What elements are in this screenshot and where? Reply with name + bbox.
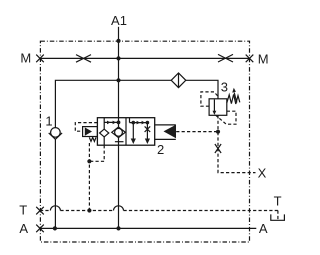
wire: main poppet to A line: [118, 138, 120, 229]
T line (dashed) with crossover hops: [40, 210, 278, 212]
junction node drain to T: [87, 208, 91, 212]
junction node check valve to A: [53, 226, 57, 230]
svg-text:A1: A1: [111, 13, 127, 28]
relief valve adjustable spring: [227, 94, 240, 104]
junction node relief drain: [216, 130, 220, 134]
line (dashed) to X port: [218, 132, 256, 173]
pilot poppet small diamond: [100, 129, 109, 137]
check valve 1 seat: [49, 133, 62, 139]
junction node pilot piston: [117, 121, 121, 125]
pilot line (dashed) to relief drain junction: [176, 131, 218, 133]
subplate boundary frame (dash-dot): [40, 41, 249, 242]
pilot piston chevron 2: [113, 121, 117, 125]
junction node on frame: [116, 39, 120, 43]
pilot operator box (left): [83, 127, 98, 137]
plugged throttle X mark: [215, 144, 221, 153]
metering chevron: [137, 121, 141, 125]
junction node metering right: [146, 121, 150, 125]
pilot line loop (dashed) to pilot box: [75, 123, 97, 132]
A line (solid): [40, 227, 256, 229]
plugged port X mark M right: [246, 55, 254, 63]
junction node metering left: [132, 121, 136, 125]
junction node on branch line: [116, 78, 120, 82]
right pilot stub lines: [155, 125, 176, 139]
wire: A1 vertical line: [118, 27, 120, 127]
svg-text:T: T: [274, 194, 282, 209]
metering section top link: [130, 118, 148, 123]
closed measuring connection (bowtie) right: [218, 54, 233, 62]
crossover hop over check valve line: [50, 206, 60, 211]
crossover hop over main line: [114, 206, 124, 211]
spring under pilot box: [89, 137, 96, 141]
svg-text:X: X: [258, 165, 267, 180]
relief spring chamber drain loop (dashed): [215, 111, 236, 124]
closed measuring connection (bowtie) left: [76, 55, 91, 63]
wire: check valve 1 down to A line: [54, 139, 56, 228]
branch (dashed) from pilot poppet to drain: [89, 145, 104, 161]
junction node drain branch: [87, 159, 91, 163]
relief valve 3 body: [209, 99, 227, 116]
pilot poppet lower stem: [103, 137, 105, 145]
wire: branch from check valve to relief valve inlet: [55, 80, 218, 127]
main poppet ball: [115, 128, 123, 136]
pilot piston chevron 1: [107, 121, 111, 125]
metering path right with arrow: [146, 123, 148, 139]
right pilot filled triangle: [164, 125, 177, 139]
wire: M gauge line: [40, 57, 250, 59]
svg-text:T: T: [19, 202, 27, 217]
svg-text:M: M: [258, 51, 269, 66]
svg-text:3: 3: [221, 79, 228, 94]
orifice diamond: [171, 73, 186, 88]
plugged port X mark A left: [36, 225, 44, 233]
svg-text:A: A: [259, 221, 268, 236]
svg-text:A: A: [19, 221, 28, 236]
pilot piston line: [104, 118, 118, 129]
pilot operator filled triangle: [85, 127, 92, 135]
valve 2 internal divider: [125, 118, 127, 146]
drain line (dashed) from spring to T line: [88, 143, 90, 211]
relief pilot loop (dashed): [201, 92, 218, 106]
metering path left with arrow: [132, 123, 134, 139]
check valve 1 ball: [51, 128, 61, 138]
main poppet diamond seat: [112, 127, 126, 138]
svg-text:1: 1: [45, 113, 52, 128]
T port plug cup: [271, 214, 285, 220]
relief valve internal arrow: [213, 100, 215, 112]
junction node main line to A: [116, 226, 120, 230]
plugged port X mark M left: [36, 55, 44, 63]
throttle X on right metering path: [145, 126, 151, 132]
T line end drop (dashed): [277, 211, 279, 220]
svg-text:M: M: [20, 50, 31, 65]
adjuster arrow: [234, 93, 237, 103]
svg-text:2: 2: [157, 142, 164, 157]
plugged port X mark T left: [36, 207, 44, 215]
main poppet stop bar: [115, 141, 124, 143]
junction node on M line: [116, 56, 120, 60]
valve 2 body: [97, 118, 154, 146]
relief outlet (dashed): [217, 115, 219, 130]
